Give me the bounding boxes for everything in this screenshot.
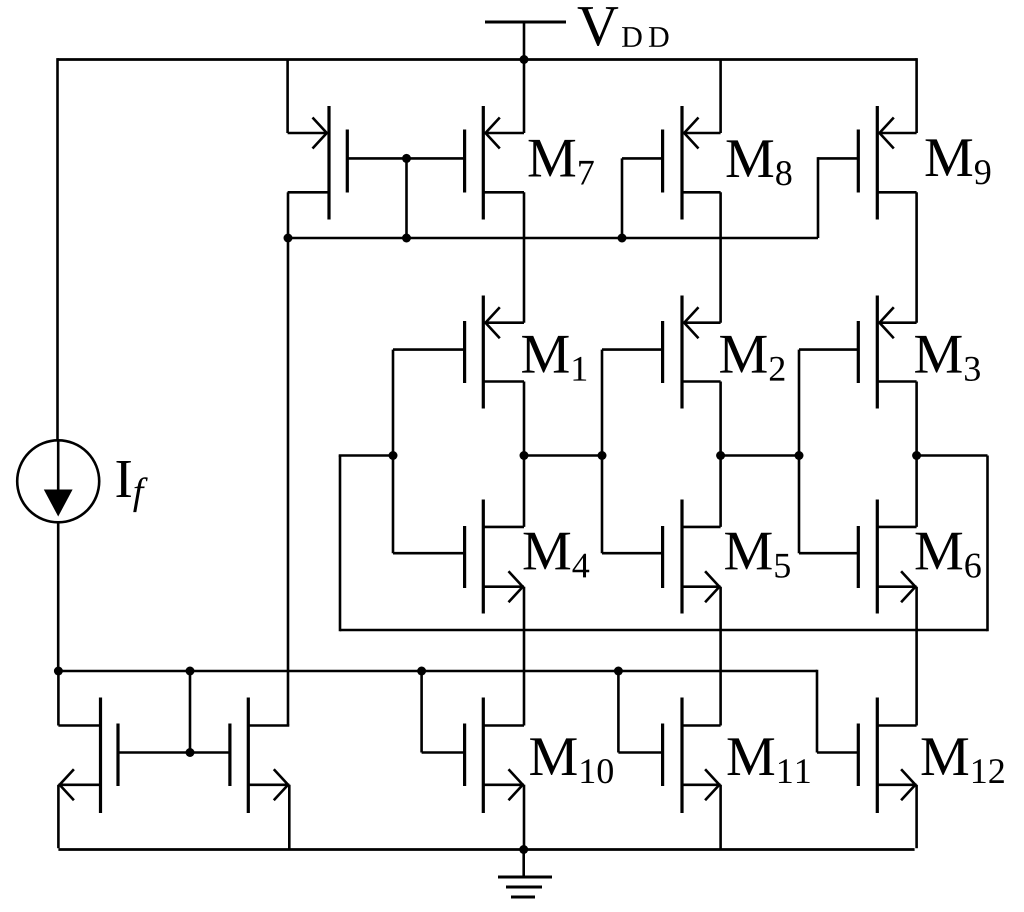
wire M3 drain to node row: [915, 382, 918, 456]
transistor M4: [465, 500, 524, 614]
wire feedback left riser x=340: [339, 456, 342, 632]
node ground junction: [519, 845, 528, 854]
current source If: [17, 440, 99, 522]
transistor M1: [465, 296, 524, 409]
label M4: [524, 533, 590, 578]
label M1: [522, 336, 586, 381]
wire bottom-right mirror source to ground rail: [288, 785, 291, 850]
transistor M12: [858, 698, 916, 814]
wire M1-M4 gate riser x=393: [392, 350, 395, 554]
transistor M9: [858, 106, 916, 220]
wire M4 drain to node row: [523, 456, 526, 527]
wire M9 gate lead: [818, 157, 858, 238]
wire node row segment D (M3/M6 drains to feedback): [917, 454, 988, 457]
wire M12 gate lead: [817, 670, 858, 753]
node bottom mirror gate junction: [186, 667, 195, 676]
label M3: [915, 336, 980, 381]
wire M4 gate lead: [393, 552, 465, 555]
wire bias net (y=671): [58, 670, 817, 673]
wire node row segment C (M2/M5 drains to M3/M6 gates): [721, 454, 799, 457]
transistor M5: [663, 500, 721, 614]
wire M7 source to rail: [523, 60, 526, 134]
label M9: [926, 139, 991, 184]
wire M7 drain to M1 source: [523, 192, 526, 322]
transistor bottom-left mirror device B (NMOS): [58, 698, 118, 814]
wire ground rail: [58, 848, 914, 851]
node M3-M6 drain junction: [912, 451, 921, 460]
wire M8 drain to M2 source: [719, 192, 722, 322]
wire left edge vertical (rail to current source): [56, 58, 59, 440]
node M2-M5 drain junction: [716, 451, 725, 460]
transistor M10: [465, 698, 524, 814]
node M1-M4 drain junction: [520, 451, 529, 460]
wire bottom mirror gate link: [118, 671, 230, 753]
wire M3-M6 gate riser x=799: [798, 350, 801, 554]
transistor M8: [663, 106, 721, 220]
label M11: [728, 738, 810, 783]
label M7: [529, 140, 594, 185]
wire M2 gate lead: [602, 348, 663, 351]
node mirror gate tie: [402, 234, 411, 243]
label M5: [725, 533, 790, 578]
wire M5 gate lead: [602, 552, 663, 555]
wire node row segment A (M1/M4 gates): [339, 454, 393, 457]
transistor bottom-left mirror device C (NMOS): [230, 698, 289, 814]
wire PMOS mirror gate net (y=238): [288, 237, 818, 240]
wire M10 source to ground rail: [523, 785, 526, 850]
node bottom mirror gate tie: [186, 748, 195, 757]
wire bottom-left drain to bias net: [57, 671, 60, 726]
wire M2 drain to node row: [719, 382, 722, 456]
wire M12 source to ground rail: [915, 785, 918, 848]
wire top VDD rail: [58, 58, 917, 61]
transistor M11: [663, 698, 721, 814]
wire mirror-left drain to gate net: [287, 192, 290, 238]
transistor top-left mirror device A (PMOS): [288, 106, 348, 220]
wire current source to bias net: [57, 522, 60, 671]
wire mirror-left source to rail: [286, 60, 289, 134]
wire M6 gate lead: [799, 552, 858, 555]
wire mirror input long vertical x=288: [287, 238, 290, 726]
node M10 gate junction: [417, 667, 426, 676]
wire M6 source to M12 drain: [915, 587, 918, 726]
transistor M7: [465, 106, 524, 220]
wire M10 gate lead: [422, 671, 465, 753]
wire M11 source to ground rail: [719, 785, 722, 850]
node M2-M5 gate junction: [598, 451, 607, 460]
wire bottom-left source to ground rail: [57, 785, 60, 848]
wire M9 drain to M3 source: [915, 192, 918, 322]
label M12: [922, 738, 1004, 783]
node VDD rail junction: [520, 55, 529, 64]
wire M9 source to rail: [915, 58, 918, 133]
node M11 gate junction: [614, 667, 623, 676]
wire M6 drain to node row: [915, 456, 918, 527]
wire M1 gate lead: [393, 348, 465, 351]
wire feedback line (y=630): [340, 629, 988, 632]
label M6: [916, 533, 981, 578]
ground: [498, 850, 552, 898]
wire M3 gate lead: [799, 348, 858, 351]
node mirror input junction: [284, 234, 293, 243]
wire M8 gate lead: [622, 158, 663, 238]
label M10: [530, 738, 613, 783]
wire node row segment B (M1/M4 drains to M2/M5 gates): [524, 454, 602, 457]
wire M8 source to rail: [719, 60, 722, 134]
transistor M3: [858, 296, 916, 409]
wire M4 source to M10 drain: [523, 587, 526, 726]
transistor M6: [858, 500, 916, 614]
label M8: [727, 140, 792, 185]
label If: [116, 461, 147, 512]
node M8 gate junction: [618, 234, 627, 243]
wire M5 drain to node row: [719, 456, 722, 527]
wire top mirror gate link: [347, 158, 464, 238]
node M1-M4 gate junction: [389, 451, 398, 460]
node If bias junction: [54, 667, 63, 676]
label M2: [720, 336, 784, 381]
wire M2-M5 gate riser x=602: [601, 350, 604, 554]
node M3-M6 gate junction: [795, 451, 804, 460]
wire M5 source to M11 drain: [719, 587, 722, 726]
node top mirror gate link junction: [402, 154, 411, 163]
transistor M2: [663, 296, 721, 409]
label VDD: [578, 7, 669, 47]
wire M11 gate lead: [618, 671, 662, 753]
wire feedback right riser x=987.5: [986, 456, 989, 632]
wire M1 drain to node row: [523, 382, 526, 456]
VDD supply symbol: [485, 22, 566, 60]
